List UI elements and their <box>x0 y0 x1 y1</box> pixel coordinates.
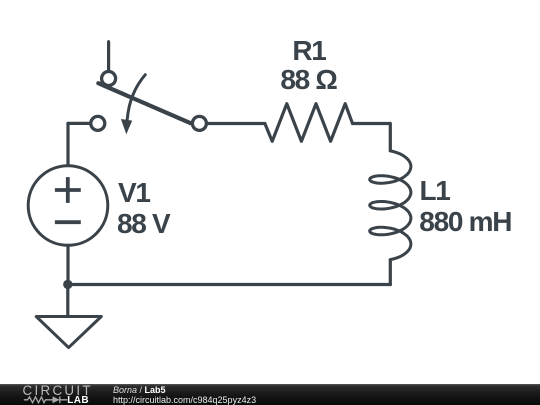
switch SW1 right terminal circle <box>192 116 206 130</box>
switch SW1 left terminal circle <box>91 116 105 130</box>
wire: switch right terminal to resistor <box>208 122 265 125</box>
wire: switch SW1 top stub (open terminal) <box>107 42 110 71</box>
label L1 name <box>420 177 450 205</box>
ground symbol <box>36 317 101 348</box>
logo LAB text <box>67 396 89 405</box>
resistor R1 <box>265 104 353 142</box>
voltage source V1 minus sign <box>55 220 81 224</box>
inductor L1 coil <box>370 151 411 260</box>
junction node at V1 bottom / ground <box>63 280 72 289</box>
footer bar <box>0 384 540 405</box>
switch SW1 actuation arrow arc <box>127 75 145 120</box>
wire: junction down to ground <box>66 285 69 316</box>
label R1 name <box>292 37 325 65</box>
footer url <box>113 396 256 405</box>
label V1 name <box>118 179 150 207</box>
wire: resistor right to top-right corner down to inductor top lead <box>353 124 391 151</box>
label V1 value 88 V <box>117 210 169 238</box>
voltage source V1 circle <box>28 166 108 246</box>
wire: left horizontal from corner to switch left terminal <box>68 122 89 125</box>
label R1 value 88 ohm <box>280 66 336 94</box>
logo wire with resistor and diode <box>24 396 68 403</box>
CircuitLab logo wordmark <box>23 384 93 397</box>
wire: bottom horizontal from junction to inductor <box>68 283 390 286</box>
logo diode triangle <box>53 396 60 403</box>
switch SW1 top terminal circle <box>102 72 116 86</box>
voltage source V1 <box>28 166 108 246</box>
switch SW1 arrowhead <box>121 119 132 134</box>
CircuitLab logo mini-circuit and LAB <box>0 395 100 405</box>
wire: inductor bottom lead <box>389 260 392 285</box>
switch SW1 <box>91 72 207 135</box>
footer title: Borna / Lab5 <box>113 386 166 395</box>
wire: V1 bottom to junction <box>66 245 69 284</box>
label L1 value 880 mH <box>419 208 511 236</box>
wire: left vertical from corner down to V1 top <box>66 123 69 164</box>
switch SW1 lever <box>98 83 190 123</box>
voltage source V1 plus sign <box>55 177 81 203</box>
